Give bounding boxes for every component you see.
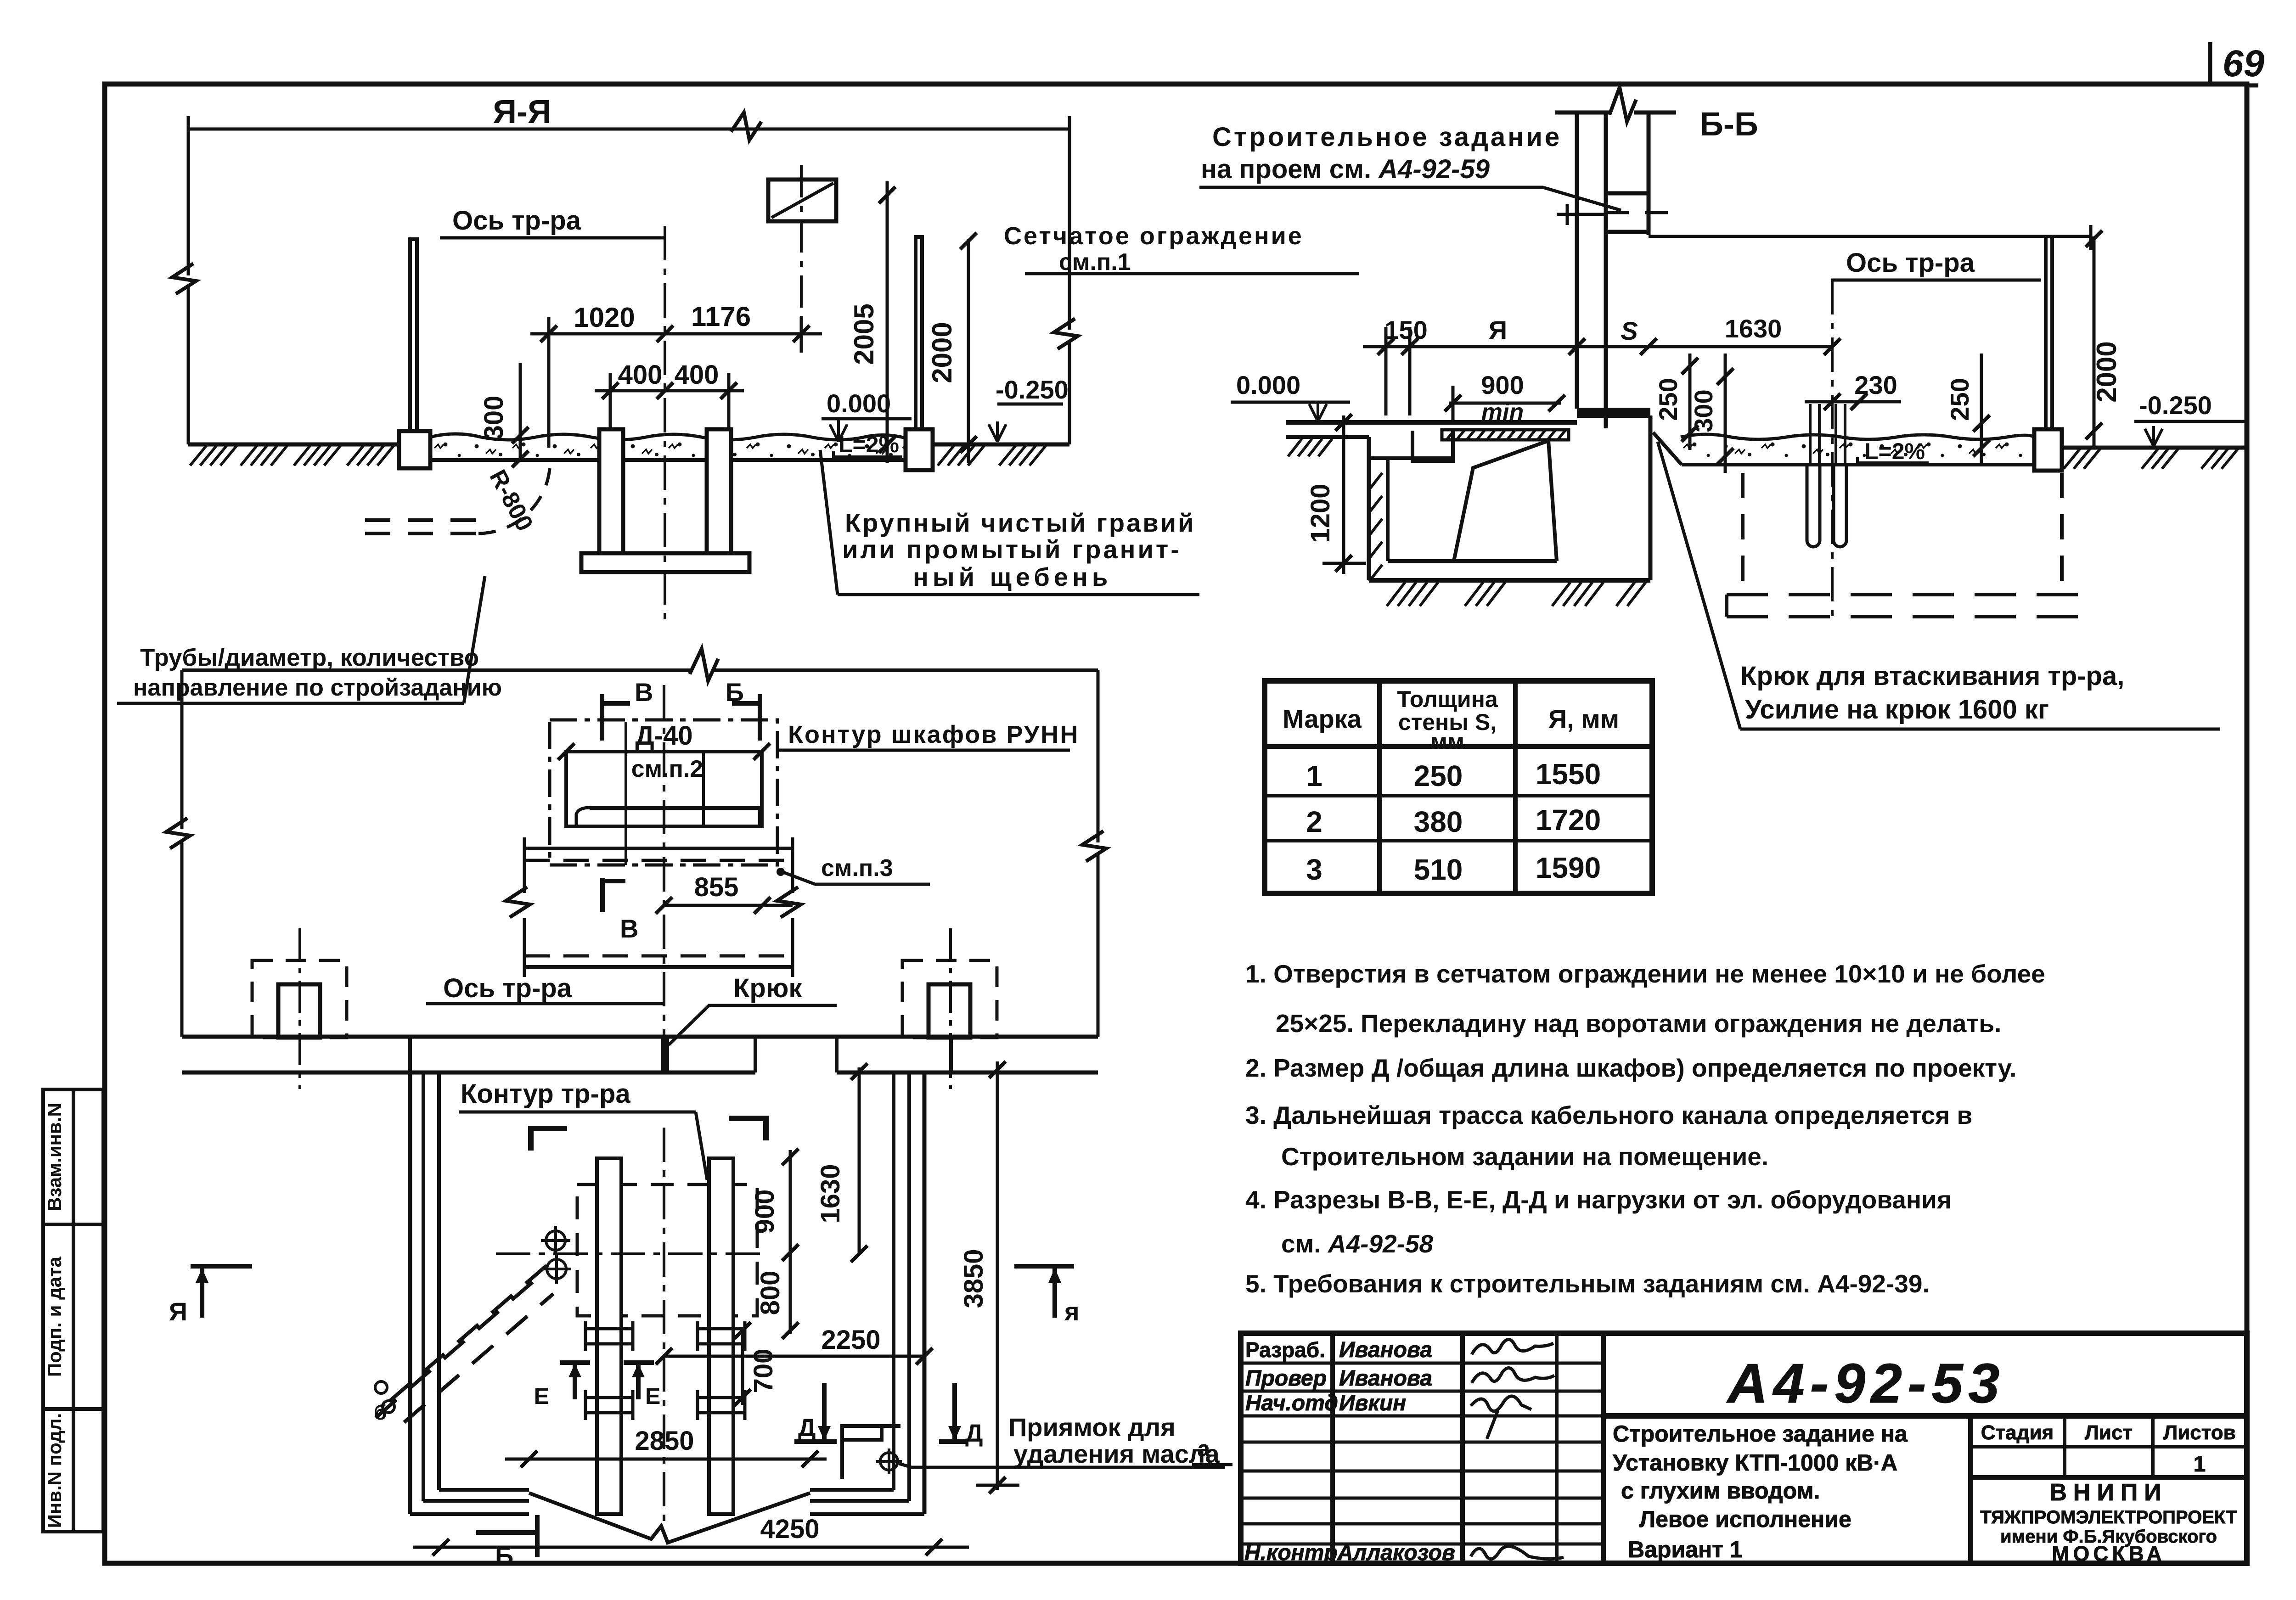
dashed future pit right <box>2060 473 2064 595</box>
sump anchor circle <box>876 1448 902 1474</box>
svg-text:2000: 2000 <box>927 322 957 383</box>
hook pipes vertical strokes <box>1810 404 1845 464</box>
svg-text:2850: 2850 <box>635 1426 694 1456</box>
svg-text:Крупный чистый гравий: Крупный чистый гравий <box>845 508 1196 537</box>
floor slab bottom <box>1286 435 1369 439</box>
corner mark Г left <box>531 1128 567 1151</box>
right extension line <box>1068 129 1071 330</box>
svg-text:Установку КТП-1000 кВ·А: Установку КТП-1000 кВ·А <box>1613 1450 1897 1476</box>
cabinet section divider 2 <box>702 753 705 825</box>
table row lines <box>1265 744 1652 749</box>
right post axis <box>949 928 952 1089</box>
title block outer <box>1241 1333 2247 1563</box>
dashed cable runs diagonal <box>389 1262 551 1401</box>
svg-text:Строительное задание: Строительное задание <box>1212 122 1562 152</box>
hatch along pit left wall <box>1369 473 1382 581</box>
svg-text:2. Размер Д /общая длина шкаф: 2. Размер Д /общая длина шкафов) определ… <box>1245 1054 2017 1082</box>
svg-text:Д: Д <box>965 1420 983 1447</box>
section mark Д right <box>939 1383 968 1442</box>
svg-text:1550: 1550 <box>1536 758 1601 791</box>
footing slab <box>581 553 749 572</box>
section mark Д left <box>794 1383 837 1442</box>
leader см.п.3 <box>783 872 815 884</box>
svg-text:на проем см. А4-92-59: на проем см. А4-92-59 <box>1201 154 1490 184</box>
svg-text:МОСКВА: МОСКВА <box>2052 1542 2166 1566</box>
underline контур <box>459 1111 696 1114</box>
fence post left <box>408 239 412 431</box>
underline крюк plan + leader <box>669 1005 837 1045</box>
underline оси plan <box>426 1002 664 1005</box>
section mark Е left <box>560 1363 590 1399</box>
rail left <box>597 1158 621 1514</box>
fence stub left of wall <box>1557 213 1606 216</box>
svg-text:Разраб.: Разраб. <box>1245 1338 1325 1362</box>
enclosure wall band top <box>182 1035 1098 1039</box>
svg-text:Ось тр-ра: Ось тр-ра <box>443 973 572 1003</box>
svg-text:25×25. Перекладину над воро: 25×25. Перекладину над воротами огражден… <box>1276 1009 2001 1038</box>
dash-dot outline контур шкафов <box>550 720 777 865</box>
fence post right <box>914 237 917 429</box>
corner mark right <box>729 1118 766 1140</box>
table column lines <box>1377 681 1382 893</box>
parapet inner face <box>1647 112 1651 235</box>
svg-text:Трубы/диаметр, количество: Трубы/диаметр, количество <box>140 644 479 671</box>
foundation right face <box>1649 415 1653 580</box>
left post axis <box>298 928 301 1089</box>
leader to proem <box>1543 187 1621 210</box>
svg-text:Я, мм: Я, мм <box>1548 704 1619 733</box>
svg-text:Ивкин: Ивкин <box>1339 1391 1406 1415</box>
svg-text:Е: Е <box>534 1383 549 1409</box>
plan top line <box>182 668 691 672</box>
svg-text:Левое исполнение: Левое исполнение <box>1639 1506 1851 1532</box>
break zig right of strip <box>777 887 801 917</box>
hatch below floor left <box>1288 439 1332 456</box>
dashed slab bottom <box>1727 615 2080 618</box>
svg-text:0.000: 0.000 <box>827 389 891 418</box>
anchor circle 1 <box>541 1226 570 1255</box>
ground line right <box>933 443 1069 447</box>
svg-text:3850: 3850 <box>959 1249 989 1308</box>
dim chain 900/800/700 <box>789 1150 792 1334</box>
ground hatch right BB <box>2064 449 2238 469</box>
break on left extension <box>172 264 196 294</box>
svg-text:2250: 2250 <box>821 1325 880 1355</box>
oil sump step <box>842 1426 900 1479</box>
channel notch <box>1412 431 1453 461</box>
hook bar <box>1577 408 1650 418</box>
rail crossbar right lower <box>698 1390 745 1420</box>
svg-text:L=2%: L=2% <box>838 432 899 457</box>
svg-text:мм: мм <box>1430 729 1464 754</box>
gravel bottom BB <box>1682 463 2034 466</box>
svg-text:ВНИПИ: ВНИПИ <box>2049 1479 2167 1506</box>
svg-text:Ось тр-ра: Ось тр-ра <box>452 206 581 236</box>
dim line 1020/1176 <box>530 332 822 336</box>
svg-text:-0.250: -0.250 <box>996 375 1069 404</box>
hook at wall (Крюк) <box>663 1039 669 1071</box>
dim 2250 <box>664 1355 924 1358</box>
band divider joints <box>410 1037 951 1072</box>
svg-text:Толщина: Толщина <box>1397 686 1498 712</box>
gravel fill <box>432 438 905 459</box>
svg-text:В: В <box>620 914 638 943</box>
svg-text:400: 400 <box>675 360 719 390</box>
pit inner left wall <box>1386 458 1390 561</box>
ground line left <box>188 443 399 447</box>
svg-text:Я-Я: Я-Я <box>493 94 551 130</box>
dim 250 left (wall to axis) <box>1688 354 1692 450</box>
svg-text:150: 150 <box>1384 315 1427 344</box>
rail crossbar left lower <box>585 1390 633 1420</box>
slash ticks BB top dim <box>1378 338 1840 355</box>
channel strip dashed top <box>524 859 793 862</box>
svg-text:Взам.инв.N: Взам.инв.N <box>44 1103 65 1211</box>
rail crossbar left upper <box>585 1321 633 1351</box>
svg-text:1630: 1630 <box>816 1164 845 1223</box>
cell bottom wall lines left part <box>410 1490 529 1514</box>
svg-text:Приямок для: Приямок для <box>1008 1413 1176 1442</box>
svg-text:1590: 1590 <box>1536 851 1601 884</box>
monorail box <box>768 180 836 221</box>
svg-text:Крюк для втаскивания тр-ра,: Крюк для втаскивания тр-ра, <box>1740 661 2124 691</box>
slash ticks 1020/1176 <box>540 326 810 342</box>
left gate post solid <box>278 984 320 1038</box>
section mark Б top <box>758 694 762 741</box>
svg-text:S: S <box>1621 316 1638 345</box>
svg-text:300: 300 <box>1689 389 1718 432</box>
svg-text:1176: 1176 <box>691 301 751 332</box>
break on right extension <box>1054 319 1078 349</box>
svg-text:69: 69 <box>2223 43 2265 84</box>
dim 2005 vertical <box>886 181 889 463</box>
leader крюк <box>1658 442 1740 729</box>
underline гравий <box>838 593 1199 596</box>
svg-text:380: 380 <box>1414 805 1463 838</box>
svg-text:1630: 1630 <box>1725 314 1782 343</box>
gravel trench band top wavy <box>430 434 906 440</box>
svg-text:510: 510 <box>1414 853 1463 886</box>
svg-text:Вариант 1: Вариант 1 <box>1628 1537 1742 1562</box>
svg-text:удаления масла: удаления масла <box>1013 1439 1220 1468</box>
svg-text:Контур шкафов РУНН: Контур шкафов РУНН <box>788 721 1079 748</box>
dim 2000 vertical <box>967 239 970 463</box>
svg-text:400: 400 <box>618 360 663 390</box>
funnel break bottom <box>529 1493 810 1543</box>
dim 300 left <box>1724 354 1727 473</box>
top rail line right part <box>1649 235 2091 238</box>
wall top cap line <box>1555 111 1611 115</box>
svg-text:800: 800 <box>755 1271 785 1315</box>
svg-text:4250: 4250 <box>760 1514 819 1544</box>
section mark Б bottom <box>476 1515 537 1557</box>
underline задание <box>1199 186 1543 189</box>
dim 4250 <box>413 1546 969 1549</box>
channel strip solid bottom <box>524 965 793 969</box>
svg-text:Нач.отд: Нач.отд <box>1245 1391 1338 1415</box>
svg-text:см.п.3: см.п.3 <box>821 855 893 881</box>
left margin stamp strip <box>43 1089 103 1532</box>
svg-text:Контур тр-ра: Контур тр-ра <box>461 1079 630 1109</box>
pit step lines <box>1369 456 1453 460</box>
svg-text:А4-92-53: А4-92-53 <box>1726 1352 2005 1415</box>
svg-text:направление по стройзаданию: направление по стройзаданию <box>133 674 502 701</box>
svg-text:230: 230 <box>1854 371 1897 399</box>
svg-text:1: 1 <box>2194 1452 2206 1476</box>
underline of Ось тр-ра <box>440 236 665 240</box>
fence post BB <box>2044 236 2048 429</box>
svg-text:300: 300 <box>479 396 509 440</box>
dim 900 min <box>1449 402 1561 405</box>
dim 2850 <box>505 1458 827 1461</box>
svg-text:Б-Б: Б-Б <box>1699 106 1758 143</box>
svg-text:Б: Б <box>726 678 744 707</box>
ground right BB <box>2062 446 2247 450</box>
leader гравий <box>820 450 838 595</box>
cell right wall triple lines <box>892 1072 895 1490</box>
svg-text:Ось тр-ра: Ось тр-ра <box>1846 248 1975 278</box>
transformer dashed outline <box>577 1185 757 1316</box>
section mark Е right <box>624 1363 654 1399</box>
svg-text:Иванова: Иванова <box>1339 1338 1432 1362</box>
proem dashed mid <box>1606 211 1684 214</box>
svg-text:2: 2 <box>1306 805 1322 838</box>
svg-text:1200: 1200 <box>1306 483 1335 543</box>
transformer axis BB <box>1831 280 1834 618</box>
dim 1630 plan <box>858 1067 861 1254</box>
svg-text:5. Требования к строительным: 5. Требования к строительным заданиям см… <box>1245 1269 1930 1298</box>
svg-text:ный щебень: ный щебень <box>913 562 1112 591</box>
svg-text:1720: 1720 <box>1536 803 1601 836</box>
floor line <box>1286 420 1577 425</box>
dim 250 right <box>1980 354 1983 465</box>
wall outer face <box>1575 112 1579 409</box>
svg-text:Стадия: Стадия <box>1981 1421 2054 1444</box>
svg-text:Б: Б <box>495 1541 513 1570</box>
proem bottom <box>1606 230 1648 234</box>
svg-text:Сетчатое ограждение: Сетчатое ограждение <box>1004 222 1304 250</box>
dim 2000 BB <box>2093 236 2096 448</box>
svg-text:Строительном задании на пом: Строительном задании на помещение. <box>1281 1142 1768 1171</box>
plan right extension <box>1097 670 1100 842</box>
svg-text:3: 3 <box>1306 853 1322 886</box>
dim 855 <box>664 904 793 907</box>
section mark Я right <box>1014 1266 1074 1318</box>
svg-text:Н.контр.: Н.контр. <box>1244 1541 1344 1565</box>
overall dim line top <box>188 128 1069 131</box>
svg-text:с глухим вводом.: с глухим вводом. <box>1621 1478 1820 1504</box>
ground hatch left <box>190 445 394 466</box>
pit inner bottom <box>1388 559 1557 563</box>
underline Трубы <box>117 702 464 705</box>
pit outer left wall <box>1367 437 1371 580</box>
slash ticks 400/400 <box>602 382 737 399</box>
cell left wall triple lines <box>408 1072 412 1514</box>
left gate post dashed <box>252 960 347 1038</box>
underline оси <box>1831 279 2041 282</box>
diagonal in box <box>771 183 833 218</box>
dim 1200 <box>1342 415 1345 574</box>
pit outer bottom <box>1369 578 1650 583</box>
dim line 150/Я/S/1630 <box>1363 345 1832 348</box>
wall inner face <box>1604 112 1608 428</box>
project title box divider <box>1968 1416 1973 1563</box>
pier right <box>707 429 731 553</box>
ground hatch right <box>938 445 1046 466</box>
underline ограждение <box>1025 272 1359 275</box>
plan left extension <box>180 670 184 829</box>
стадия лист листов header row <box>1970 1445 2247 1448</box>
underline РУНН <box>779 749 1070 752</box>
slab left end solid <box>1725 595 1728 617</box>
anchor circle 2 <box>542 1254 571 1284</box>
svg-text:см. А4-92-58: см. А4-92-58 <box>1281 1229 1434 1258</box>
svg-text:Д: Д <box>798 1414 816 1442</box>
svg-text:я: я <box>1064 1297 1080 1326</box>
dashed future pit left <box>1741 473 1745 595</box>
tick right end <box>1068 116 1071 142</box>
break zigzag on top dim line <box>731 112 761 140</box>
svg-text:см.п.1: см.п.1 <box>1059 249 1131 275</box>
svg-text:900: 900 <box>1481 371 1524 399</box>
fence post left base <box>399 431 430 468</box>
svg-text:2000: 2000 <box>2091 341 2122 402</box>
dashed pipes <box>365 518 478 522</box>
svg-text:min: min <box>1481 399 1524 426</box>
trench left slope <box>1653 432 1682 465</box>
svg-text:900: 900 <box>750 1190 780 1234</box>
svg-text:1. Отверстия в сетчатом огр: 1. Отверстия в сетчатом ограждении не ме… <box>1245 960 2045 988</box>
fence base right BB <box>2034 429 2062 471</box>
break zigzag on cap <box>1609 87 1636 122</box>
svg-text:Я: Я <box>169 1297 187 1326</box>
svg-text:Я: Я <box>1489 315 1507 344</box>
wall thickness table frame <box>1265 681 1652 893</box>
cell bottom wall lines right part <box>810 1490 924 1514</box>
dim 230 <box>1805 400 1901 404</box>
svg-text:Марка: Марка <box>1283 704 1362 733</box>
staff table rows <box>1241 1363 1604 1544</box>
roller axis horizontal <box>496 1252 762 1255</box>
svg-text:В: В <box>635 678 653 707</box>
svg-text:Аллакозов: Аллакозов <box>1337 1541 1455 1565</box>
cabinet channel detail <box>576 808 760 825</box>
svg-text:Провер: Провер <box>1245 1366 1327 1391</box>
rail right <box>709 1158 733 1514</box>
svg-text:см.п.2: см.п.2 <box>631 756 703 782</box>
left extension line <box>187 129 190 275</box>
dim line 400/400 <box>595 389 744 393</box>
section mark В bottom <box>600 878 605 912</box>
rail crossbar right upper <box>698 1321 745 1351</box>
cabinet section divider 1 (В-В trace) <box>625 722 627 865</box>
leader Трубы <box>464 576 485 703</box>
svg-text:ТЯЖПРОМЭЛЕКТРОПРОЕКТ: ТЯЖПРОМЭЛЕКТРОПРОЕКТ <box>1980 1507 2237 1527</box>
svg-text:4. Разрезы В-В, Е-Е, Д-Д и н: 4. Разрезы В-В, Е-Е, Д-Д и нагрузки от э… <box>1245 1185 1952 1214</box>
right gate post dashed <box>902 960 997 1038</box>
svg-text:250: 250 <box>1945 378 1974 421</box>
box axis <box>800 165 803 353</box>
svg-text:-0.250: -0.250 <box>2139 391 2212 420</box>
cabinet solid rect <box>566 752 762 826</box>
underline крюк <box>1740 728 2220 731</box>
gravel band bottom <box>430 458 906 462</box>
svg-text:б: б <box>374 1400 387 1424</box>
pipe ends at wall <box>375 1381 387 1393</box>
break zig left of strip <box>506 887 530 917</box>
enclosure wall band bottom <box>182 1071 755 1075</box>
svg-text:Листов: Листов <box>2163 1421 2235 1444</box>
underline см.п.3 <box>815 883 930 886</box>
svg-text:1: 1 <box>1306 759 1322 792</box>
hook loops <box>1807 465 1820 547</box>
fence post right base <box>906 429 933 470</box>
proem top <box>1606 191 1648 196</box>
transformer axis line <box>664 226 666 621</box>
plan axis <box>663 685 665 1051</box>
svg-text:250: 250 <box>1414 759 1463 792</box>
leader контур <box>696 1112 707 1180</box>
svg-text:Строительное задание на: Строительное задание на <box>1613 1421 1908 1447</box>
pier left <box>599 429 623 553</box>
svg-text:Лист: Лист <box>2085 1421 2133 1444</box>
svg-text:3. Дальнейшая трасса кабельн: 3. Дальнейшая трасса кабельного канала о… <box>1245 1101 1972 1129</box>
dim 3850 <box>996 1061 999 1490</box>
big doc number box <box>1604 1413 2247 1419</box>
section mark Я left <box>191 1266 252 1318</box>
section mark В top <box>600 694 604 741</box>
staff table columns <box>1330 1333 1335 1563</box>
gravel fill BB <box>1683 439 2034 463</box>
svg-text:1020: 1020 <box>574 302 635 333</box>
svg-text:855: 855 <box>694 872 739 902</box>
svg-text:Усилие на крюк 1600 кг: Усилие на крюк 1600 кг <box>1745 695 2049 724</box>
R=800 dashed arc <box>478 461 550 533</box>
dashed slab top <box>1727 593 2080 596</box>
svg-text:или промытый гранит-: или промытый гранит- <box>842 535 1182 564</box>
channel strip dashed bottom <box>524 954 793 958</box>
right gate post solid <box>929 984 970 1038</box>
underline приямок + leader <box>899 1464 1225 1467</box>
chute slant <box>1454 441 1557 561</box>
hatch under pit bottom <box>1387 582 1646 606</box>
svg-text:Иванова: Иванова <box>1339 1366 1432 1391</box>
svg-text:а: а <box>1198 1437 1210 1461</box>
channel strip solid top <box>524 847 793 850</box>
grating hatched band <box>1442 430 1569 440</box>
svg-text:Крюк: Крюк <box>733 973 802 1003</box>
svg-text:0.000: 0.000 <box>1236 371 1300 399</box>
svg-text:250: 250 <box>1654 378 1683 421</box>
gravel trench BB top wavy <box>1681 434 2034 439</box>
svg-text:Инв.N подл.: Инв.N подл. <box>44 1413 65 1528</box>
cell axis <box>663 1128 665 1529</box>
break zigzag on plan top line <box>690 649 718 681</box>
page number tick <box>2208 42 2212 86</box>
dim line Д-40 <box>566 750 762 753</box>
tick left end <box>187 116 190 142</box>
svg-text:L=2%: L=2% <box>1864 438 1925 464</box>
svg-text:Е: Е <box>645 1383 660 1409</box>
svg-text:2005: 2005 <box>849 303 879 365</box>
svg-text:Подп. и дата: Подп. и дата <box>44 1256 65 1377</box>
